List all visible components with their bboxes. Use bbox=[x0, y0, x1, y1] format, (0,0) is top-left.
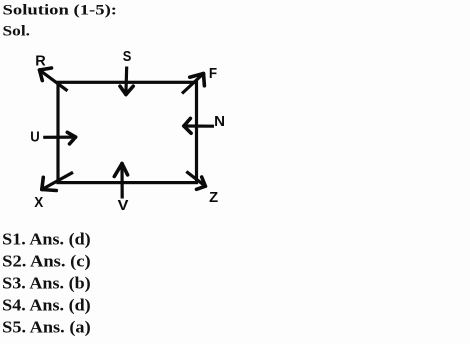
svg-text:R: R bbox=[35, 53, 46, 70]
arrow at top-left corner (outward, toward R) bbox=[40, 68, 68, 91]
svg-text:S5. Ans. (a): S5. Ans. (a) bbox=[2, 317, 91, 336]
svg-text:S3. Ans. (b): S3. Ans. (b) bbox=[2, 273, 91, 292]
arrow at bottom-middle (inward, from V) bbox=[114, 164, 127, 199]
rectangle box bbox=[58, 82, 197, 182]
arrow at left-middle (inward, from U) bbox=[43, 132, 75, 144]
svg-text:U: U bbox=[30, 129, 40, 146]
svg-text:V: V bbox=[118, 197, 129, 214]
svg-text:S1. Ans. (d): S1. Ans. (d) bbox=[2, 229, 91, 248]
svg-text:Z: Z bbox=[209, 189, 218, 206]
svg-text:X: X bbox=[34, 194, 43, 211]
svg-text:S2. Ans. (c): S2. Ans. (c) bbox=[2, 251, 91, 270]
svg-text:Sol.: Sol. bbox=[3, 23, 31, 39]
svg-text:S4. Ans. (d): S4. Ans. (d) bbox=[2, 295, 91, 314]
svg-text:N: N bbox=[214, 113, 225, 130]
arrow at top-middle (inward, from S) bbox=[120, 67, 133, 95]
arrow at bottom-right corner (outward, toward Z) bbox=[186, 172, 205, 190]
svg-text:F: F bbox=[209, 65, 217, 82]
arrow at bottom-left corner (outward, toward X) bbox=[42, 172, 73, 190]
arrow at top-right corner (outward, toward F) bbox=[182, 74, 204, 94]
svg-text:Solution (1-5):: Solution (1-5): bbox=[3, 3, 118, 19]
svg-text:S: S bbox=[123, 48, 132, 65]
arrow at right-middle (inward, from N) bbox=[184, 118, 214, 133]
